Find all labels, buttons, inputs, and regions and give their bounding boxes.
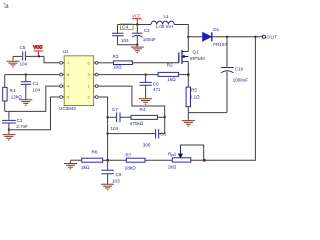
capacitor C3 (electrolytic) bbox=[132, 25, 143, 45]
svg-text:2kΩ: 2kΩ bbox=[81, 165, 90, 170]
svg-text:C3: C3 bbox=[144, 28, 150, 33]
value 12k ohm (R1) bbox=[11, 95, 22, 100]
wire R2 to Q1 source node bbox=[179, 74, 189, 76]
svg-text:1.05 mH: 1.05 mH bbox=[156, 24, 173, 29]
wire C6 top stub bbox=[145, 75, 147, 83]
wire Q1 source to R5 bbox=[187, 62, 189, 88]
junction at C1 top bbox=[25, 73, 27, 75]
capacitor C4 bbox=[112, 25, 124, 45]
mosfet Q1 (IRF540) bbox=[179, 50, 189, 64]
value 2k ohm (Rp1) bbox=[168, 164, 177, 169]
wire comp rail (C8 row) bbox=[108, 133, 165, 135]
value 104 (C4) bbox=[121, 38, 129, 43]
label C9 bbox=[116, 172, 122, 177]
junction C3 bottom bbox=[136, 44, 138, 46]
terminal OUT bbox=[262, 35, 277, 40]
label U1 bbox=[63, 49, 69, 54]
resistor R6 bbox=[82, 158, 103, 162]
wire top rail bbox=[118, 24, 152, 26]
wire D1 to OUT bbox=[213, 36, 263, 38]
resistor R7 bbox=[126, 158, 145, 162]
label R4 bbox=[140, 107, 146, 112]
label D1 bbox=[213, 27, 219, 32]
ground left of R6 bbox=[64, 160, 77, 169]
inductor L1 bbox=[151, 21, 174, 24]
junction Rp1 wiper/rail bbox=[203, 159, 206, 162]
svg-text:12kΩ: 12kΩ bbox=[11, 95, 22, 100]
svg-text:C7: C7 bbox=[112, 107, 118, 112]
label C4 (boxed) bbox=[121, 24, 134, 30]
junction source/R2 bbox=[187, 73, 190, 76]
wire C5 left to ground bbox=[13, 55, 22, 57]
wire pin 8 rail (VREF) bbox=[5, 74, 60, 76]
svg-text:10Ω: 10Ω bbox=[113, 65, 122, 70]
ground under C6 bbox=[139, 99, 152, 104]
label C7 bbox=[112, 107, 118, 112]
label C10 bbox=[235, 66, 244, 71]
junction at C2 bottom bbox=[8, 129, 10, 131]
label C3 bbox=[144, 28, 150, 33]
label L1 bbox=[164, 14, 170, 19]
svg-text:C6: C6 bbox=[153, 81, 159, 86]
value 2k ohm (R6) bbox=[81, 165, 90, 170]
svg-text:300: 300 bbox=[143, 143, 151, 148]
wire C4/C3 ground rail bbox=[118, 44, 138, 46]
svg-text:470kΩ: 470kΩ bbox=[130, 121, 144, 126]
svg-text:OUT: OUT bbox=[266, 35, 277, 40]
capacitor C8 bbox=[156, 129, 159, 139]
svg-text:R6: R6 bbox=[92, 150, 98, 155]
value IRF540 (Q1) bbox=[190, 56, 206, 61]
wire R5 bottom node bbox=[187, 107, 189, 121]
value 103 (C9) bbox=[112, 179, 120, 184]
wire C2 top stub bbox=[8, 111, 10, 119]
junction feedback divider bbox=[106, 159, 109, 162]
power VCC (top) bbox=[132, 13, 141, 24]
op-amp U1 (UC3843 PWM controller body) bbox=[64, 56, 93, 106]
svg-text:100uF: 100uF bbox=[143, 37, 156, 42]
resistor R5 (current sense) bbox=[186, 87, 190, 107]
pin 4 (left stub) bbox=[60, 84, 70, 89]
value 104 (C7) bbox=[111, 126, 119, 131]
wire R7 to Rp1 bbox=[145, 159, 172, 161]
label C2 bbox=[17, 118, 23, 123]
wire pin 6 to R3 bbox=[98, 62, 113, 64]
svg-text:U1: U1 bbox=[63, 49, 69, 54]
ground G1 (left of C5) bbox=[7, 56, 20, 66]
svg-text:C9: C9 bbox=[116, 172, 122, 177]
svg-text:2kΩ: 2kΩ bbox=[168, 164, 177, 169]
pin 1 (right stub) bbox=[88, 84, 99, 89]
value 1000uF (C10) bbox=[233, 77, 249, 82]
label R1 bbox=[10, 88, 16, 93]
wire pin 4 to RT/CT node bbox=[5, 86, 60, 111]
ground under C3/C4 bbox=[131, 45, 144, 53]
label R7 bbox=[126, 153, 132, 158]
junction boost node bbox=[187, 36, 189, 38]
wire C9 top stub bbox=[107, 160, 109, 170]
wire C1 bottom stub bbox=[25, 84, 27, 99]
wire output feedback vertical bbox=[191, 37, 256, 160]
wire pin 1 (COMP) routing bbox=[98, 86, 165, 134]
svg-text:471: 471 bbox=[153, 87, 161, 92]
value 0.1 ohm (R5) bbox=[190, 94, 200, 99]
svg-text:R7: R7 bbox=[126, 153, 132, 158]
capacitor C2 bbox=[2, 120, 16, 123]
svg-text:R2: R2 bbox=[167, 63, 173, 68]
potentiometer Rp1 bbox=[172, 146, 191, 162]
svg-text:R1: R1 bbox=[10, 88, 16, 93]
svg-text:C2: C2 bbox=[17, 118, 23, 123]
label C8 bbox=[160, 131, 166, 136]
junction VCC/C3 bbox=[136, 23, 138, 25]
svg-text:C1: C1 bbox=[33, 81, 39, 86]
wire pin 3 to CS node bbox=[98, 74, 158, 76]
pin 7 (left stub) bbox=[60, 60, 70, 65]
value FR157 (D1) bbox=[213, 42, 227, 47]
wire VCC node to pin 7 bbox=[44, 56, 59, 62]
svg-text:C4: C4 bbox=[122, 25, 128, 30]
value 1.05 mH (L1) bbox=[156, 24, 173, 29]
junction at VCC/C5 node bbox=[38, 55, 40, 57]
svg-text:1000uF: 1000uF bbox=[233, 77, 249, 82]
wire sense ground to C10 bottom bbox=[188, 112, 227, 114]
svg-text:IRF540: IRF540 bbox=[190, 56, 206, 61]
value UC3843 bbox=[59, 106, 76, 111]
junction C10 tap bbox=[226, 36, 228, 38]
junction VFB/comp rail 2 bbox=[106, 132, 108, 134]
svg-text:FR157: FR157 bbox=[213, 42, 227, 47]
wire Rp1 wiper loop bbox=[181, 145, 204, 160]
svg-text:1kΩ: 1kΩ bbox=[167, 77, 176, 82]
svg-text:104: 104 bbox=[33, 87, 41, 92]
junction OUT feedback tap bbox=[254, 36, 256, 38]
svg-text:C8: C8 bbox=[160, 131, 166, 136]
value 10 ohm (R3) bbox=[113, 65, 122, 70]
wire Q1 drain bbox=[187, 37, 189, 52]
svg-text:L1: L1 bbox=[164, 14, 170, 19]
wire gnd to R6 bbox=[71, 159, 82, 161]
stray cursor mark bbox=[4, 3, 9, 8]
svg-text:Q1: Q1 bbox=[193, 49, 200, 54]
svg-text:103: 103 bbox=[112, 179, 120, 184]
pin 8 (left stub) bbox=[60, 72, 70, 77]
ground under C2 bbox=[2, 130, 15, 140]
svg-text:UC3843: UC3843 bbox=[59, 106, 76, 111]
value 300 (C8) bbox=[143, 143, 151, 148]
ground under C1 bbox=[19, 100, 32, 105]
label R6 bbox=[92, 150, 98, 155]
capacitor C9 bbox=[101, 170, 113, 173]
junction COMP/R4 right bbox=[164, 116, 166, 118]
wire C6 bottom stub bbox=[145, 85, 147, 98]
wire R1 bottom bbox=[4, 101, 6, 111]
svg-text:104: 104 bbox=[121, 38, 129, 43]
label R2 bbox=[167, 63, 173, 68]
svg-text:28kΩ: 28kΩ bbox=[125, 165, 136, 170]
capacitor C6 bbox=[140, 82, 152, 85]
label R3 bbox=[113, 54, 119, 59]
wire C5 to VCC junction bbox=[25, 55, 44, 57]
value 100uF (C3) bbox=[143, 37, 156, 42]
label C6 bbox=[153, 81, 159, 86]
wire R3 to Q1 gate bbox=[133, 62, 179, 64]
junction at C6 top bbox=[144, 73, 146, 75]
wire rail to R1 top bbox=[4, 75, 6, 88]
svg-text:0.1Ω: 0.1Ω bbox=[190, 94, 200, 99]
value 1k ohm (R2) bbox=[167, 77, 176, 82]
wire C9 bottom stub bbox=[107, 174, 109, 184]
value 2.7nF (C2) bbox=[16, 124, 28, 129]
diode D1 bbox=[203, 32, 212, 41]
pin 3 (right stub) bbox=[88, 72, 99, 77]
label Rp1 bbox=[168, 152, 177, 158]
capacitor C10 (output electrolytic) bbox=[221, 37, 234, 113]
pin 5 (left stub) bbox=[60, 95, 70, 100]
value 104 (C1) bbox=[33, 87, 41, 92]
resistor R4 bbox=[131, 115, 158, 119]
svg-text:R4: R4 bbox=[140, 107, 146, 112]
capacitor C7 bbox=[117, 112, 120, 122]
value 104 (C5) bbox=[20, 62, 28, 67]
capacitor C5 bbox=[23, 52, 26, 61]
ground under R5 bbox=[182, 121, 195, 126]
pin 2 (right stub) bbox=[88, 95, 99, 100]
junction VFB/comp rail 1 bbox=[106, 116, 108, 118]
svg-text:104: 104 bbox=[111, 126, 119, 131]
svg-text:1: 1 bbox=[174, 152, 177, 157]
power VCC (left) bbox=[33, 45, 43, 57]
value 470k ohm (R4) bbox=[130, 121, 144, 126]
svg-text:C5: C5 bbox=[20, 45, 26, 50]
label C5 bbox=[20, 45, 26, 50]
svg-text:VCC: VCC bbox=[33, 45, 42, 50]
svg-text:104: 104 bbox=[20, 62, 28, 67]
wire L1 to boost node bbox=[174, 25, 188, 37]
pin 6 (right stub) bbox=[88, 60, 99, 65]
capacitor C1 bbox=[21, 82, 31, 85]
label C1 bbox=[33, 81, 39, 86]
svg-text:R3: R3 bbox=[113, 54, 119, 59]
label Q1 bbox=[193, 49, 200, 54]
wire comp rail (C7/R4 row) bbox=[108, 116, 165, 118]
resistor R3 bbox=[114, 61, 133, 65]
wire pin 5 to ground rail bbox=[9, 97, 60, 130]
value 471 (C6) bbox=[153, 87, 161, 92]
wire boost node to D1 bbox=[188, 36, 202, 38]
value 28k ohm (R7) bbox=[125, 165, 136, 170]
label R5 bbox=[191, 88, 197, 93]
svg-text:D1: D1 bbox=[213, 27, 219, 32]
ground under C9 bbox=[101, 184, 114, 189]
svg-text:C10: C10 bbox=[235, 66, 244, 71]
wire C1 top stub bbox=[25, 75, 27, 82]
svg-text:VCC: VCC bbox=[132, 13, 141, 18]
svg-text:2.7nF: 2.7nF bbox=[16, 124, 28, 129]
wire R6 to junction bbox=[103, 159, 127, 161]
resistor R1 bbox=[3, 87, 7, 101]
wire C2 bottom to gnd rail bbox=[8, 123, 10, 130]
wire pin 2 (VFB) vertical bbox=[98, 97, 107, 160]
svg-text:R5: R5 bbox=[191, 88, 197, 93]
resistor R2 bbox=[158, 72, 179, 76]
